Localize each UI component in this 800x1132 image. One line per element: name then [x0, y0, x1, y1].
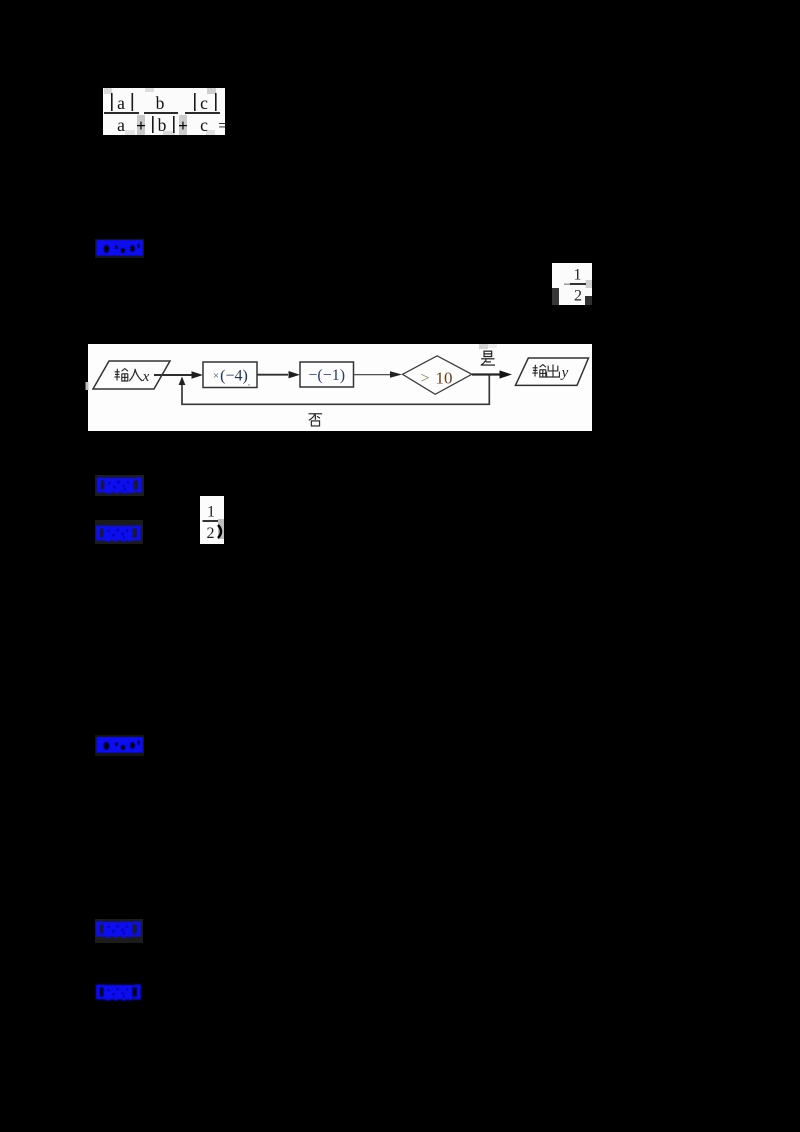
numerator |a|: [111, 93, 113, 111]
parallelogram output: [515, 358, 588, 385]
gray artifacts: [104, 88, 112, 94]
svg-text:2: 2: [207, 525, 215, 542]
svg-text:+: +: [178, 116, 188, 135]
parallelogram input: [93, 361, 170, 389]
svg-text:(−4): (−4): [220, 368, 248, 385]
svg-text:×: ×: [213, 370, 219, 382]
svg-text:c: c: [200, 93, 208, 113]
wire diamond to output: [472, 373, 500, 375]
light smudges: [479, 344, 488, 349]
svg-text:1: 1: [207, 504, 215, 521]
wire no-loop: [182, 376, 489, 405]
svg-text:1: 1: [574, 267, 582, 284]
svg-text:10: 10: [436, 369, 453, 388]
svg-text:>: >: [420, 370, 429, 387]
blue label E: [94, 918, 96, 920]
blue label C: [94, 519, 96, 521]
blue label A (solid style): [94, 238, 96, 240]
svg-text:a: a: [117, 115, 125, 135]
fraction -1/2 image: [552, 263, 592, 305]
fraction bars: [104, 112, 139, 114]
fraction 1/2) image: [200, 496, 224, 544]
blue label D (solid style): [94, 734, 96, 736]
process2 box: [300, 362, 354, 387]
wire process1 to process2: [257, 374, 288, 376]
process1 box: [203, 362, 257, 388]
svg-text:b: b: [156, 93, 165, 113]
numerator |c|: [194, 93, 196, 111]
svg-text:2: 2: [574, 288, 582, 305]
blue label F: [94, 981, 96, 983]
math image 1: (|a|/a + b/|b| + |c|/c =) white box: [103, 88, 225, 135]
svg-text:−(−1): −(−1): [308, 367, 345, 384]
label 否: [309, 414, 323, 426]
svg-text:y: y: [560, 365, 569, 381]
decision diamond: [403, 356, 472, 395]
svg-text:b: b: [158, 115, 167, 135]
blue label B: [94, 474, 96, 476]
svg-text:a: a: [117, 93, 125, 113]
wire process2 to diamond: [354, 374, 392, 376]
svg-text:,: ,: [248, 378, 250, 387]
svg-text:c: c: [200, 115, 208, 135]
svg-text:=: =: [218, 116, 225, 135]
svg-text:x: x: [142, 369, 150, 385]
flowchart image: [88, 344, 592, 431]
wire: input to process1: [154, 374, 192, 376]
label 是: [481, 351, 495, 365]
svg-text:+: +: [136, 116, 146, 135]
